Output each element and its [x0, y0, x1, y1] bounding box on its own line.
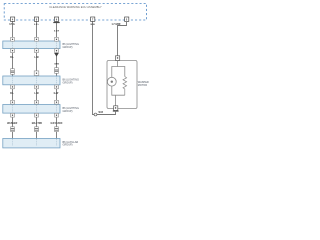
wire W5 from pin 5 with jog to washer motor — [118, 22, 127, 56]
wire W1 vertical — [12, 21, 14, 139]
svg-text:1.7 GBR: 1.7 GBR — [112, 24, 121, 26]
connector box W1 / B1 bottom — [11, 49, 15, 53]
connector box W2 / B2 top (splice box) — [34, 71, 39, 76]
svg-text:GROUND: GROUND — [51, 122, 63, 125]
wire W2 vertical — [36, 21, 38, 139]
washer motor bottom internal wiring — [112, 86, 125, 95]
svg-text:GROUP): GROUP) — [63, 110, 73, 113]
svg-text:MOTOR: MOTOR — [138, 84, 147, 87]
junction bar B1 — [3, 41, 60, 49]
svg-text:W-B: W-B — [99, 112, 104, 114]
connector box W2 / B3 top — [35, 100, 39, 104]
resistor zigzag — [123, 77, 127, 96]
ground wire from bottom pin — [97, 110, 116, 114]
wire W3 vertical — [56, 21, 58, 139]
connector box W1 / B2 bottom — [11, 85, 15, 89]
ECU dashed box (CLEARANCE WARNING ECU ASSEMBLY) — [4, 4, 146, 20]
svg-text:GROUP): GROUP) — [63, 46, 73, 49]
junction bar B4 — [3, 139, 60, 148]
connector box W1 / B3 top — [11, 100, 15, 104]
svg-text:GROUP): GROUP) — [63, 81, 73, 84]
svg-text:GROUP): GROUP) — [63, 144, 73, 147]
connector box W3 / B3 top — [55, 100, 59, 104]
ECU pin 4 — [91, 17, 95, 22]
connector box W2 / B2 bottom — [35, 85, 39, 89]
svg-text:0.5 L: 0.5 L — [34, 24, 40, 26]
washer motor top pin box — [116, 56, 120, 61]
connector box W1 / B3 bottom — [11, 113, 15, 117]
svg-text:R-L: R-L — [10, 57, 14, 59]
washer motor internal wiring — [112, 60, 118, 77]
washer motor bottom pin box — [113, 106, 119, 112]
junction bar B2 — [3, 76, 60, 85]
inline connector W1 above B2 — [11, 69, 15, 75]
connector box W2 above B4 — [35, 127, 39, 132]
ground splice circle — [94, 113, 97, 116]
washer motor box U1 — [107, 61, 137, 109]
connector box W3 / B2 bottom — [55, 85, 59, 89]
connector box W2 / B1 bottom — [35, 49, 39, 53]
svg-text:MAJ-TRD: MAJ-TRD — [32, 122, 43, 125]
pin 3 connector flange — [53, 22, 59, 23]
connector box W3 / B1 bottom — [55, 49, 59, 53]
connector box W3 / B3 bottom — [55, 113, 59, 117]
svg-text:0.5 G: 0.5 G — [9, 24, 15, 26]
svg-text:CLEARANCE WARNING ECU ASSEMBLY: CLEARANCE WARNING ECU ASSEMBLY — [49, 5, 102, 9]
ECU pin 5 — [125, 17, 129, 22]
wire W4 vertical (to ground splice) — [93, 21, 95, 115]
svg-text:R-L: R-L — [10, 93, 14, 95]
bottom stem — [115, 95, 117, 106]
connector box W2 / B1 top — [35, 37, 39, 41]
connector box W2 / B3 bottom — [35, 113, 39, 117]
svg-text:W-B: W-B — [90, 24, 95, 26]
ECU pin 2 — [34, 17, 38, 22]
ECU pin 3 — [54, 17, 58, 22]
svg-text:GRN: GRN — [54, 63, 59, 65]
connector box W1 / B1 top — [11, 37, 15, 41]
wire W3 direction arrow — [54, 53, 59, 57]
connector box W3 above B4 — [55, 127, 59, 132]
connector box W3 / B1 top — [55, 37, 59, 41]
inline connector W3 above B2 — [55, 68, 59, 74]
ECU pin 1 — [11, 17, 15, 22]
connector box W1 above B4 — [11, 127, 15, 132]
motor M circle — [107, 77, 116, 86]
svg-text:0.5 R: 0.5 R — [54, 30, 60, 32]
junction bar B3 — [3, 105, 60, 114]
svg-text:G-W: G-W — [54, 93, 60, 95]
svg-text:WASHER: WASHER — [7, 122, 17, 125]
